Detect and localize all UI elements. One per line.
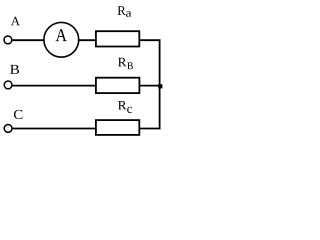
wire: terminal C to resistor Rc [12,128,96,130]
wire: right bus vertical [159,39,161,129]
resistor Rc [96,120,139,135]
resistor Rb [96,78,139,93]
node A label [11,17,20,25]
junction dot [158,84,162,88]
label Rb [118,58,133,69]
node C label [14,110,22,119]
wire: terminal A to ammeter [12,39,44,41]
wire: terminal B to resistor Rb [12,85,96,87]
label Ra [118,6,132,16]
wire: resistor Ra to right bus [140,39,161,41]
wire: resistor Rc to right bus [140,128,161,130]
wire: ammeter to resistor Ra [79,39,97,41]
node C terminal [4,124,12,132]
node B terminal [4,81,12,89]
ammeter U1 [44,22,79,57]
node A terminal [4,36,12,44]
wire: resistor Rb to right bus [140,85,161,87]
label Rc [118,101,132,113]
node B label [10,65,19,74]
resistor Ra [96,31,139,46]
